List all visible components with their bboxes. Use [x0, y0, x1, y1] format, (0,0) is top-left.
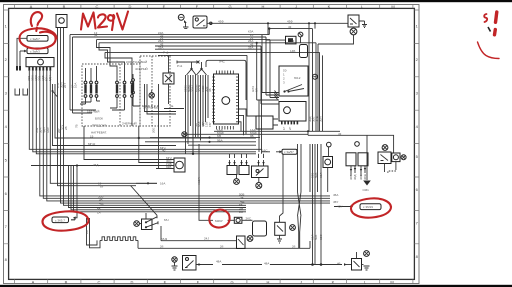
- svg-text:c 3a/b3: c 3a/b3: [30, 50, 40, 54]
- svg-text:2ДБ: 2ДБ: [46, 127, 50, 133]
- svg-text:B: B: [65, 280, 68, 285]
- svg-text:5ДЧ: 5ДЧ: [48, 75, 52, 81]
- svg-text:45А: 45А: [333, 193, 338, 197]
- svg-text:с 3б/19: с 3б/19: [363, 205, 373, 209]
- svg-text:E: E: [164, 280, 167, 285]
- svg-text:30И: 30И: [319, 117, 323, 123]
- svg-text:26Д: 26Д: [93, 163, 98, 167]
- svg-text:K: K: [328, 4, 331, 9]
- svg-text:НАГРЕВАТ.: НАГРЕВАТ.: [91, 131, 107, 135]
- svg-text:9БА: 9БА: [217, 138, 223, 142]
- svg-text:G: G: [230, 280, 233, 285]
- svg-text:2б: 2б: [292, 245, 296, 249]
- svg-text:30Ж: 30Ж: [363, 174, 367, 180]
- svg-text:30С: 30С: [319, 234, 323, 240]
- svg-text:50Б: 50Б: [314, 235, 318, 240]
- svg-text:4СЕРЫЙ: 4СЕРЫЙ: [135, 67, 148, 71]
- svg-text:20Т: 20Т: [63, 83, 67, 88]
- svg-text:СМ1: СМ1: [363, 188, 370, 192]
- svg-text:40У: 40У: [337, 205, 342, 209]
- svg-text:2б: 2б: [160, 245, 164, 249]
- svg-text:50В: 50В: [314, 173, 318, 178]
- svg-text:МГ4J: МГ4J: [88, 142, 96, 146]
- svg-text:15Г: 15Г: [208, 122, 212, 127]
- svg-text:48А: 48А: [216, 260, 221, 264]
- svg-text:с 3а/57: с 3а/57: [284, 150, 294, 154]
- svg-text:M: M: [391, 4, 394, 9]
- svg-text:14Б: 14Б: [290, 49, 295, 53]
- svg-text:2б: 2б: [220, 245, 224, 249]
- svg-text:1БЕЛЫЙ: 1БЕЛЫЙ: [87, 110, 99, 114]
- svg-text:16С: 16С: [262, 149, 268, 153]
- svg-text:40: 40: [162, 149, 166, 153]
- svg-text:93В: 93В: [166, 165, 171, 169]
- svg-text:2Г: 2Г: [288, 126, 292, 130]
- svg-text:D: D: [131, 280, 134, 285]
- svg-text:4Щ: 4Щ: [99, 202, 104, 206]
- svg-text:48А: 48А: [264, 262, 269, 266]
- svg-text:C: C: [96, 4, 99, 9]
- svg-text:А30Я: А30Я: [197, 177, 201, 185]
- svg-text:43: 43: [338, 132, 342, 136]
- svg-text:33А: 33А: [248, 46, 253, 50]
- svg-text:7Б: 7Б: [75, 124, 79, 128]
- svg-text:9ЧС: 9ЧС: [219, 60, 226, 64]
- svg-text:20Е: 20Е: [152, 128, 156, 133]
- svg-text:8У: 8У: [100, 185, 104, 189]
- svg-text:J: J: [300, 280, 302, 285]
- svg-text:M: M: [390, 280, 393, 285]
- svg-text:B: B: [63, 4, 66, 9]
- svg-text:2М: 2М: [239, 210, 244, 214]
- svg-text:H: H: [262, 4, 265, 9]
- svg-text:43Ф: 43Ф: [287, 20, 293, 24]
- svg-text:БЛОК: БЛОК: [95, 117, 103, 121]
- svg-text:МЧ3: МЧ3: [161, 237, 167, 241]
- svg-text:A: A: [32, 280, 35, 285]
- svg-text:C: C: [98, 280, 101, 285]
- svg-text:A: A: [30, 4, 33, 9]
- svg-text:1Б: 1Б: [85, 230, 89, 234]
- svg-text:45У: 45У: [333, 200, 338, 204]
- svg-text:9Б: 9Б: [250, 134, 254, 138]
- svg-text:43Ф: 43Ф: [218, 20, 224, 24]
- svg-text:2Б: 2Б: [64, 126, 68, 130]
- svg-text:J: J: [295, 4, 297, 9]
- svg-text:Ю12: Ю12: [294, 76, 301, 80]
- svg-text:4б: 4б: [337, 262, 341, 266]
- svg-text:3а: 3а: [170, 104, 174, 108]
- svg-text:33А: 33А: [158, 46, 163, 50]
- svg-text:24J: 24J: [204, 237, 209, 241]
- svg-text:25: 25: [94, 34, 98, 38]
- svg-text:30Л: 30Л: [319, 173, 323, 178]
- svg-text:G: G: [228, 4, 231, 9]
- svg-text:E: E: [163, 4, 166, 9]
- svg-text:Рч1: Рч1: [163, 51, 169, 55]
- svg-text:2бС: 2бС: [246, 217, 252, 221]
- svg-text:3КРАСНЫЙ: 3КРАСНЫЙ: [143, 106, 159, 110]
- svg-text:М29У: М29У: [215, 219, 223, 223]
- svg-text:43: 43: [291, 39, 295, 43]
- svg-text:c 3a/b7: c 3a/b7: [30, 37, 40, 41]
- svg-text:1А: 1А: [97, 211, 101, 215]
- svg-text:2ЧЕРНЫЙ: 2ЧЕРНЫЙ: [122, 122, 137, 126]
- svg-text:19: 19: [90, 134, 94, 138]
- svg-text:Рч1: Рч1: [177, 64, 183, 68]
- svg-text:10А: 10А: [74, 83, 78, 88]
- svg-text:D: D: [129, 4, 132, 9]
- svg-text:43: 43: [288, 25, 292, 29]
- svg-text:МЧ: МЧ: [164, 218, 168, 222]
- svg-text:8Л: 8Л: [255, 88, 259, 92]
- svg-text:30Д: 30Д: [353, 175, 357, 180]
- svg-text:КОРИЧНЕВЫЙ: КОРИЧНЕВЫЙ: [126, 60, 147, 64]
- svg-text:16А: 16А: [160, 182, 165, 186]
- svg-text:3Б: 3Б: [208, 88, 212, 92]
- svg-text:H: H: [267, 280, 270, 285]
- svg-text:1Г: 1Г: [282, 126, 286, 130]
- svg-text:с 3б5.7: с 3б5.7: [55, 218, 65, 222]
- svg-text:K: K: [332, 280, 335, 285]
- svg-text:ПРЕДОХР.: ПРЕДОХР.: [92, 124, 107, 128]
